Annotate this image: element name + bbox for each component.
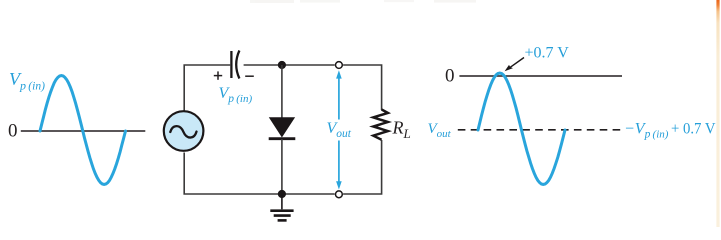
capacitor plus sign (214, 71, 222, 79)
output sine wave (478, 73, 565, 185)
input sine wave (40, 76, 126, 185)
wire: top-left segment (source top to capacitor) (184, 65, 230, 111)
annotation arrow to peak (505, 58, 524, 72)
AC source sine symbol (170, 126, 196, 137)
capacitor C (plates) (231, 51, 239, 79)
wire: diode branch upper (281, 65, 283, 118)
diode D1 (anode triangle) (270, 118, 295, 137)
wire: bottom rail (184, 153, 335, 195)
wire: diode branch lower (281, 139, 283, 194)
svg-text:+ 0.7 V: + 0.7 V (671, 120, 716, 137)
Vout arrow down (336, 141, 342, 190)
output terminal top (336, 62, 343, 69)
svg-text:+0.7 V: +0.7 V (525, 45, 570, 62)
page edge stripe (716, 0, 719, 227)
junction dot top (278, 61, 286, 69)
diode D1 (cathode bar) (269, 137, 296, 140)
wire: top terminal to RL top (343, 65, 382, 110)
Vout arrow up (336, 70, 342, 119)
wire: bottom terminal to RL bottom (343, 140, 382, 194)
wire: capacitor to top junction and output terminal top (244, 64, 335, 66)
ground (270, 194, 293, 220)
output reference dashed line (458, 129, 621, 131)
capacitor minus sign (245, 75, 254, 77)
svg-text:0: 0 (445, 66, 455, 87)
junction dot bottom (278, 190, 286, 198)
output waveform axis (459, 75, 622, 77)
input waveform axis (21, 130, 146, 132)
resistor RL (zigzag) (373, 110, 388, 140)
AC source VS (164, 111, 204, 151)
svg-text:0: 0 (8, 121, 18, 142)
output terminal bottom (336, 191, 343, 198)
faint cropped caption remnants (top) (250, 0, 476, 3)
